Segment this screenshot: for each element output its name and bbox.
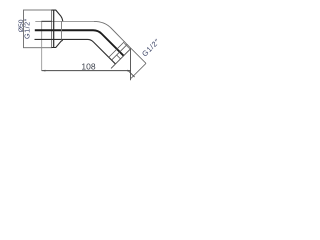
thread stub top edge (darker segment) (41, 20, 52, 22)
thread stub edge / dimension extension line (41, 21, 43, 71)
outlet thread bottom edge (117, 55, 121, 59)
pipe top silhouette (bend and 45 part) (94, 21, 131, 48)
cap nut bottom edge and chamfer (51, 40, 62, 48)
outlet collar ring 2 (112, 44, 128, 60)
outlet tip face and its extension (111, 48, 131, 68)
pipe reflection band (35, 30, 124, 56)
diagonal extension from axis-extension end (131, 63, 146, 78)
cap nut right edge (61, 21, 63, 40)
escutcheon plate (wall flange, Ø50) (24, 10, 52, 48)
svg-text:108: 108 (81, 61, 95, 71)
outlet thread top step line (124, 43, 130, 49)
dimension arrow right (127, 70, 131, 72)
svg-text:G1/2″: G1/2″ (22, 18, 31, 39)
cap nut left edge (53, 10, 55, 47)
axis extension line beyond tip (131, 48, 146, 63)
oblique tick at right dimension end (128, 71, 135, 78)
pipe top silhouette (horizontal part) (35, 20, 94, 22)
pipe bottom silhouette (35, 39, 116, 64)
dimension line 108 (42, 70, 131, 72)
dimension arrow left (42, 70, 46, 72)
vertical extension line from tip (130, 48, 132, 80)
shower arm technical drawing (0, 0, 185, 188)
outlet collar ring 1 (109, 42, 125, 58)
cap nut top edge and chamfer (51, 10, 62, 21)
